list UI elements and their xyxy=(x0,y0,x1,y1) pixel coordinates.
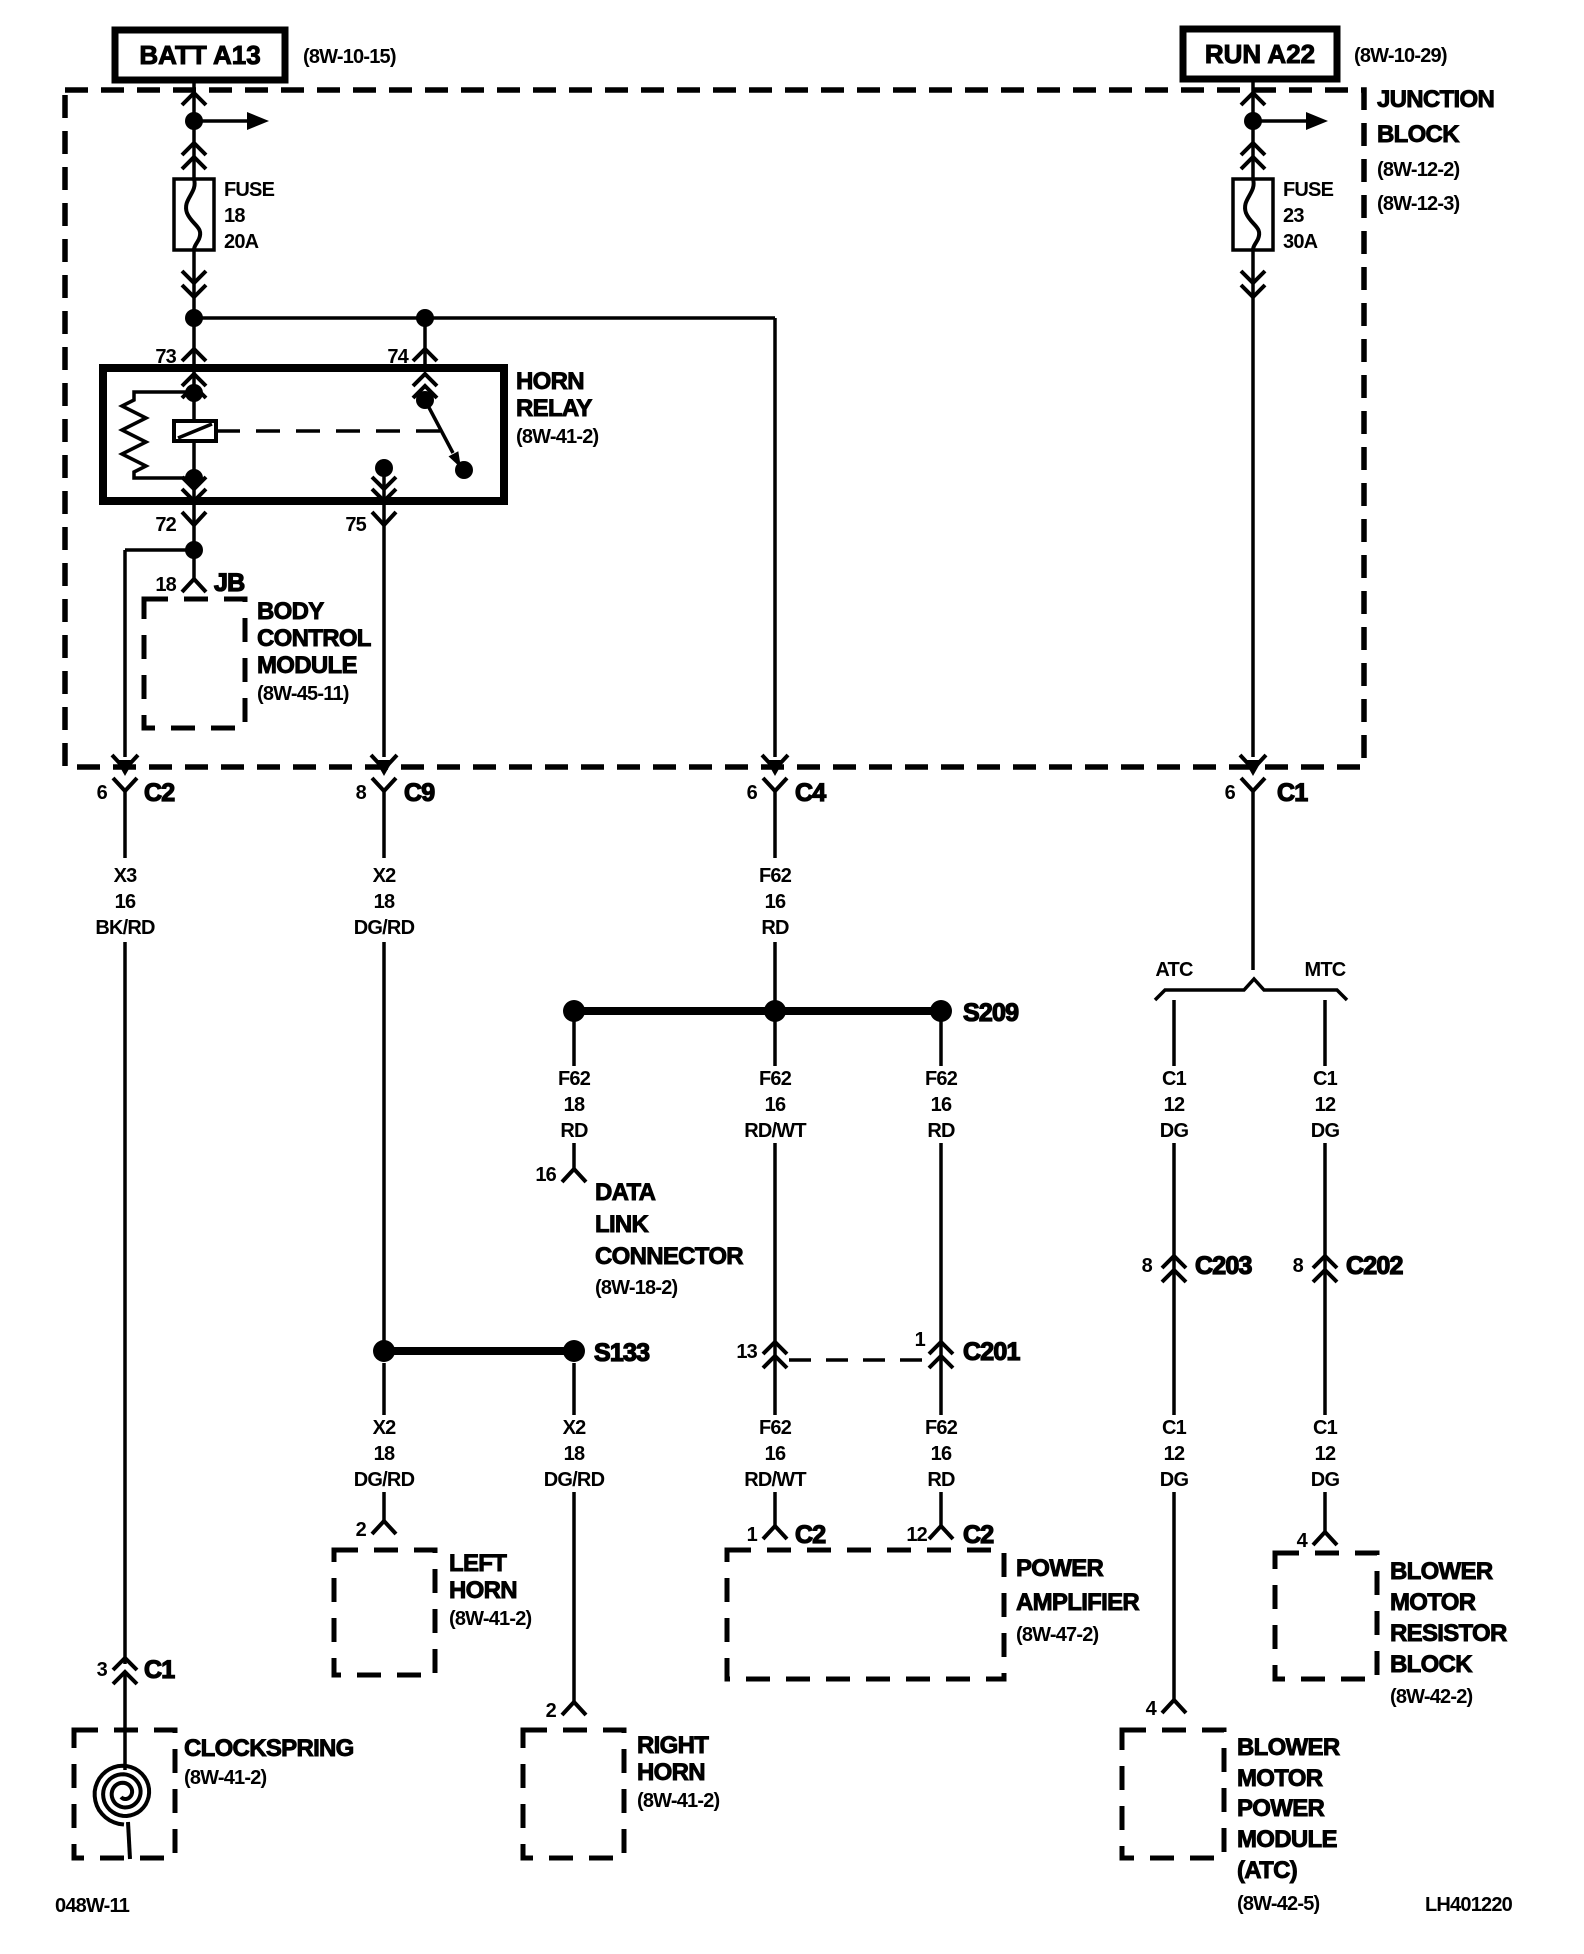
svg-text:C2: C2 xyxy=(144,779,174,807)
svg-text:C2: C2 xyxy=(963,1521,993,1549)
data link connector label xyxy=(595,1179,743,1299)
blower motor resistor block label xyxy=(1390,1558,1507,1708)
connector C2 at junction block xyxy=(97,755,175,807)
clockspring coil spiral xyxy=(95,1766,149,1859)
svg-text:8: 8 xyxy=(1293,1255,1304,1277)
svg-text:16: 16 xyxy=(765,1443,786,1465)
svg-text:FUSE: FUSE xyxy=(224,179,275,201)
node fuse out xyxy=(185,309,203,327)
C201 dashed tie xyxy=(789,1358,927,1362)
svg-text:F62: F62 xyxy=(925,1417,958,1439)
svg-text:MOTOR: MOTOR xyxy=(1390,1589,1476,1616)
wire label C1 12 DG mtc lower xyxy=(1311,1417,1340,1491)
wire label F62 16 RD right xyxy=(925,1068,958,1142)
svg-text:F62: F62 xyxy=(759,1417,792,1439)
relay resistor xyxy=(122,392,194,478)
reference (8W-10-29) xyxy=(1354,45,1447,67)
node S133 right xyxy=(563,1340,585,1362)
wire label F62 18 RD xyxy=(558,1068,591,1142)
S209 label xyxy=(963,999,1018,1027)
fuse 18 20A xyxy=(174,179,214,250)
svg-text:18: 18 xyxy=(374,1443,395,1465)
relay coil branch wire xyxy=(192,368,196,478)
svg-text:LEFT: LEFT xyxy=(449,1550,507,1577)
node S133 left xyxy=(373,1340,395,1362)
svg-text:F62: F62 xyxy=(759,1068,792,1090)
svg-text:75: 75 xyxy=(345,514,366,536)
blower motor power module box xyxy=(1122,1730,1224,1858)
svg-text:C1: C1 xyxy=(1162,1068,1187,1090)
svg-text:JUNCTION: JUNCTION xyxy=(1377,86,1494,113)
wire C4 to S209 xyxy=(773,791,777,1011)
svg-text:POWER: POWER xyxy=(1016,1555,1104,1582)
svg-text:(8W-41-2): (8W-41-2) xyxy=(516,426,599,448)
wire label F62 16 RD lower xyxy=(925,1417,958,1491)
svg-text:X2: X2 xyxy=(373,1417,397,1439)
clockspring box xyxy=(74,1730,175,1858)
svg-text:HORN: HORN xyxy=(637,1759,705,1786)
wire S133 to left horn xyxy=(382,1363,386,1521)
connector C201 pin 13 xyxy=(736,1341,787,1368)
C201 label xyxy=(963,1338,1020,1366)
svg-text:RD: RD xyxy=(761,917,789,939)
wire fuse 23 to C1 xyxy=(1241,250,1265,757)
wire splice to C2 drop xyxy=(125,550,194,757)
svg-text:RD: RD xyxy=(927,1120,955,1142)
svg-text:DG/RD: DG/RD xyxy=(354,917,415,939)
right horn box xyxy=(523,1730,624,1858)
svg-text:X2: X2 xyxy=(373,865,397,887)
svg-text:LH401220: LH401220 xyxy=(1425,1894,1513,1916)
svg-text:72: 72 xyxy=(155,514,176,536)
svg-text:048W-11: 048W-11 xyxy=(55,1895,130,1917)
clockspring connector 3 C1 xyxy=(97,1656,176,1684)
relay switch arm xyxy=(425,400,461,468)
svg-text:BODY: BODY xyxy=(257,598,324,625)
svg-text:C1: C1 xyxy=(1313,1068,1338,1090)
connector C9 at junction block xyxy=(356,755,435,807)
svg-text:23: 23 xyxy=(1283,205,1304,227)
svg-text:X3: X3 xyxy=(114,865,138,887)
svg-text:BLOWER: BLOWER xyxy=(1237,1734,1340,1761)
horn relay label xyxy=(516,368,599,448)
svg-text:LINK: LINK xyxy=(595,1211,650,1238)
svg-text:F62: F62 xyxy=(558,1068,591,1090)
svg-text:CONTROL: CONTROL xyxy=(257,625,371,652)
svg-text:RD/WT: RD/WT xyxy=(744,1120,806,1142)
svg-text:FUSE: FUSE xyxy=(1283,179,1334,201)
svg-text:(8W-41-2): (8W-41-2) xyxy=(637,1790,720,1812)
svg-text:30A: 30A xyxy=(1283,231,1318,253)
svg-text:(8W-42-2): (8W-42-2) xyxy=(1390,1686,1473,1708)
wire C2 to clockspring xyxy=(123,791,127,1664)
svg-text:74: 74 xyxy=(387,346,409,368)
splice S133 bus xyxy=(384,1347,574,1355)
wire label X3 16 BK/RD xyxy=(95,865,155,939)
connector C201 pin 1 xyxy=(915,1329,953,1368)
node pin74 tap xyxy=(416,309,434,327)
svg-text:16: 16 xyxy=(535,1164,556,1186)
connector C203 xyxy=(1142,1252,1252,1282)
relay pin 72 exit xyxy=(182,477,206,550)
wire RUN feed down to fuse 23 xyxy=(1241,79,1265,179)
svg-text:20A: 20A xyxy=(224,231,259,253)
horn relay box xyxy=(103,368,504,501)
svg-text:(8W-42-5): (8W-42-5) xyxy=(1237,1893,1320,1915)
left horn box xyxy=(334,1550,435,1675)
splice S209 bus xyxy=(574,1007,941,1015)
wire C1 conn to clockspring box xyxy=(123,1672,127,1770)
power amplifier pin 12 C2 xyxy=(906,1521,993,1549)
wire relay 75 to C9 xyxy=(382,527,386,757)
svg-text:RD: RD xyxy=(560,1120,588,1142)
svg-text:(8W-47-2): (8W-47-2) xyxy=(1016,1624,1099,1646)
feed box RUN A22 xyxy=(1183,29,1337,79)
svg-text:18: 18 xyxy=(564,1443,585,1465)
svg-text:RIGHT: RIGHT xyxy=(637,1732,709,1759)
svg-text:DG: DG xyxy=(1160,1120,1189,1142)
svg-text:4: 4 xyxy=(1146,1698,1158,1720)
body control module label xyxy=(257,598,371,705)
svg-text:DG: DG xyxy=(1311,1120,1340,1142)
wire S209 to DLC xyxy=(572,1011,576,1169)
clockspring label xyxy=(184,1735,354,1789)
svg-text:18: 18 xyxy=(155,574,176,596)
wire MTC branch down xyxy=(1323,1000,1327,1532)
DLC pin 16 xyxy=(535,1164,586,1186)
svg-text:12: 12 xyxy=(906,1524,927,1546)
svg-text:C202: C202 xyxy=(1346,1252,1403,1280)
wire tap to relay pin 74 xyxy=(423,318,427,368)
svg-text:(8W-18-2): (8W-18-2) xyxy=(595,1277,678,1299)
pin 75 label xyxy=(345,512,396,536)
svg-text:4: 4 xyxy=(1297,1530,1309,1552)
sheet code LH401220 xyxy=(1425,1894,1513,1916)
fuse 18 label xyxy=(224,179,275,253)
svg-text:(8W-10-15): (8W-10-15) xyxy=(303,46,396,68)
blower motor resistor block pin 4 xyxy=(1297,1530,1337,1552)
connector C1 at junction block xyxy=(1225,755,1309,807)
wire label F62 16 RD xyxy=(759,865,792,939)
relay switch contact node xyxy=(416,391,434,409)
relay pin 74 xyxy=(387,346,437,398)
reference (8W-10-15) xyxy=(303,46,396,68)
wire C201 to power amplifier pin 1 xyxy=(773,1492,777,1526)
S133 label xyxy=(594,1339,649,1367)
wire S209 to C201 pin 13 xyxy=(773,1011,777,1415)
wire splice to BCM pin 18 xyxy=(192,550,196,579)
svg-text:2: 2 xyxy=(356,1519,367,1541)
svg-text:16: 16 xyxy=(931,1094,952,1116)
svg-text:C1: C1 xyxy=(1277,779,1308,807)
wire label X2 18 DG/RD horn right xyxy=(544,1417,605,1491)
svg-text:18: 18 xyxy=(374,891,395,913)
svg-text:DG/RD: DG/RD xyxy=(544,1469,605,1491)
svg-text:CLOCKSPRING: CLOCKSPRING xyxy=(184,1735,354,1762)
svg-text:DG: DG xyxy=(1311,1469,1340,1491)
relay pin 75 exit wire xyxy=(372,468,396,527)
node S209 left xyxy=(563,1000,585,1022)
svg-text:16: 16 xyxy=(115,891,136,913)
connector C202 xyxy=(1293,1252,1403,1282)
svg-text:(8W-41-2): (8W-41-2) xyxy=(449,1608,532,1630)
svg-text:12: 12 xyxy=(1164,1443,1185,1465)
svg-text:BLOCK: BLOCK xyxy=(1377,121,1460,148)
svg-text:1: 1 xyxy=(915,1329,926,1351)
svg-text:JB: JB xyxy=(214,569,244,597)
svg-text:S133: S133 xyxy=(594,1339,649,1367)
relay pin 75 node xyxy=(375,459,393,477)
svg-text:MODULE: MODULE xyxy=(1237,1826,1337,1853)
svg-text:12: 12 xyxy=(1164,1094,1185,1116)
node batt splice xyxy=(185,112,203,130)
svg-text:(8W-12-2): (8W-12-2) xyxy=(1377,159,1460,181)
fuse 23 label xyxy=(1283,179,1334,253)
svg-text:C1: C1 xyxy=(144,1656,175,1684)
svg-text:C201: C201 xyxy=(963,1338,1020,1366)
left horn label xyxy=(449,1550,532,1630)
svg-text:RD/WT: RD/WT xyxy=(744,1469,806,1491)
power amplifier label xyxy=(1016,1555,1139,1646)
svg-text:C1: C1 xyxy=(1313,1417,1338,1439)
svg-text:RD: RD xyxy=(927,1469,955,1491)
node S209 mid xyxy=(764,1000,786,1022)
blower motor power module pin 4 xyxy=(1146,1698,1186,1720)
node run splice xyxy=(1244,112,1262,130)
arrow feed right xyxy=(194,112,269,130)
svg-text:(8W-41-2): (8W-41-2) xyxy=(184,1767,267,1789)
junction block dashed border xyxy=(65,90,1364,767)
BCM pin 18 JB xyxy=(155,569,244,597)
relay coil node top xyxy=(185,384,203,402)
svg-text:12: 12 xyxy=(1315,1443,1336,1465)
svg-text:16: 16 xyxy=(931,1443,952,1465)
blower motor power module label xyxy=(1237,1734,1340,1915)
wire BATT feed down to fuse 18 xyxy=(182,80,206,179)
fuse 23 30A xyxy=(1233,179,1273,250)
wire label X2 18 DG/RD horn left xyxy=(354,1417,415,1491)
ATC/MTC split brace xyxy=(1155,979,1347,1000)
svg-text:16: 16 xyxy=(765,1094,786,1116)
arrow feed right 2 xyxy=(1253,112,1328,130)
svg-text:C9: C9 xyxy=(404,779,434,807)
svg-text:AMPLIFIER: AMPLIFIER xyxy=(1016,1589,1139,1616)
ATC label xyxy=(1155,959,1193,981)
svg-text:RESISTOR: RESISTOR xyxy=(1390,1620,1507,1647)
svg-text:16: 16 xyxy=(765,891,786,913)
wire fuse 18 to relay xyxy=(182,250,206,368)
svg-text:2: 2 xyxy=(546,1700,557,1722)
svg-text:18: 18 xyxy=(564,1094,585,1116)
wire label X2 18 DG/RD left xyxy=(354,865,415,939)
svg-text:C4: C4 xyxy=(795,779,826,807)
svg-text:MODULE: MODULE xyxy=(257,652,357,679)
svg-text:X2: X2 xyxy=(563,1417,587,1439)
svg-text:12: 12 xyxy=(1315,1094,1336,1116)
svg-text:13: 13 xyxy=(736,1341,757,1363)
svg-text:HORN: HORN xyxy=(449,1577,517,1604)
wire label C1 12 DG mtc upper xyxy=(1311,1068,1340,1142)
svg-text:DG/RD: DG/RD xyxy=(354,1469,415,1491)
node pin72 splice xyxy=(185,541,203,559)
svg-text:F62: F62 xyxy=(925,1068,958,1090)
svg-text:73: 73 xyxy=(155,346,176,368)
connector C4 at junction block xyxy=(747,755,827,807)
svg-text:C2: C2 xyxy=(795,1521,825,1549)
svg-text:BATT A13: BATT A13 xyxy=(139,40,260,70)
wire label F62 16 RD/WT lower xyxy=(744,1417,806,1491)
svg-text:(8W-45-11): (8W-45-11) xyxy=(257,683,349,705)
left horn pin 2 xyxy=(356,1519,396,1541)
wire label C1 12 DG atc upper xyxy=(1160,1068,1189,1142)
svg-text:8: 8 xyxy=(1142,1255,1153,1277)
wire C201 to power amplifier pin 12 xyxy=(939,1492,943,1526)
svg-text:ATC: ATC xyxy=(1155,959,1193,981)
wire ATC branch down xyxy=(1172,1000,1176,1700)
blower motor resistor block box xyxy=(1275,1553,1377,1679)
svg-text:18: 18 xyxy=(224,205,245,227)
svg-text:HORN: HORN xyxy=(516,368,584,395)
svg-text:6: 6 xyxy=(747,782,758,804)
svg-text:3: 3 xyxy=(97,1659,108,1681)
svg-text:BLOWER: BLOWER xyxy=(1390,1558,1493,1585)
svg-text:MOTOR: MOTOR xyxy=(1237,1765,1323,1792)
svg-text:C203: C203 xyxy=(1195,1252,1252,1280)
svg-text:BLOCK: BLOCK xyxy=(1390,1651,1473,1678)
svg-text:8: 8 xyxy=(356,782,367,804)
svg-text:S209: S209 xyxy=(963,999,1018,1027)
right horn pin 2 xyxy=(546,1700,586,1722)
svg-text:RUN A22: RUN A22 xyxy=(1205,39,1315,69)
relay coil node bottom xyxy=(185,469,203,487)
wire S209 to C201 pin 1 xyxy=(939,1011,943,1415)
svg-text:CONNECTOR: CONNECTOR xyxy=(595,1243,743,1270)
svg-text:F62: F62 xyxy=(759,865,792,887)
sheet number 048W-11 xyxy=(55,1895,130,1917)
svg-text:(ATC): (ATC) xyxy=(1237,1857,1297,1884)
body control module box xyxy=(144,599,245,728)
right horn label xyxy=(637,1732,720,1812)
wire label C1 12 DG atc lower xyxy=(1160,1417,1189,1491)
svg-text:POWER: POWER xyxy=(1237,1795,1325,1822)
relay actuation dashed link xyxy=(216,429,440,433)
svg-text:BK/RD: BK/RD xyxy=(95,917,155,939)
wire S133 to right horn xyxy=(572,1363,576,1702)
wire bus to C4 drop xyxy=(194,318,775,757)
svg-text:(8W-10-29): (8W-10-29) xyxy=(1354,45,1447,67)
svg-text:RELAY: RELAY xyxy=(516,395,592,422)
wire C1 to ATC/MTC brace xyxy=(1251,791,1255,970)
node S209 right xyxy=(930,1000,952,1022)
svg-text:DATA: DATA xyxy=(595,1179,656,1206)
junction block label xyxy=(1377,86,1494,215)
feed box BATT A13 xyxy=(115,30,285,80)
MTC label xyxy=(1305,959,1346,981)
wire label F62 16 RD/WT xyxy=(744,1068,806,1142)
power amplifier box xyxy=(727,1550,1004,1679)
relay coil xyxy=(174,421,216,441)
svg-text:6: 6 xyxy=(97,782,108,804)
wire C9 to S133 xyxy=(382,791,386,1351)
svg-text:6: 6 xyxy=(1225,782,1236,804)
svg-text:C1: C1 xyxy=(1162,1417,1187,1439)
relay pin 73 xyxy=(155,346,206,398)
svg-text:(8W-12-3): (8W-12-3) xyxy=(1377,193,1460,215)
svg-text:MTC: MTC xyxy=(1305,959,1346,981)
power amplifier pin 1 C2 xyxy=(747,1521,826,1549)
pin 72 label xyxy=(155,512,206,536)
svg-text:DG: DG xyxy=(1160,1469,1189,1491)
svg-text:1: 1 xyxy=(747,1524,758,1546)
relay switch throw node xyxy=(455,461,473,479)
